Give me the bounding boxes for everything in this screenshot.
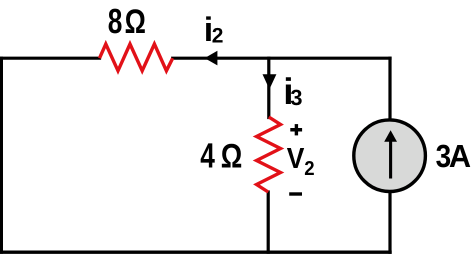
svg-text:2: 2 — [304, 158, 314, 180]
svg-text:8: 8 — [108, 2, 123, 41]
svg-text:V: V — [287, 143, 305, 175]
svg-text:2: 2 — [212, 25, 224, 48]
svg-text:4: 4 — [200, 137, 215, 176]
svg-text:3: 3 — [290, 85, 302, 110]
svg-text:Ω: Ω — [125, 3, 146, 41]
svg-text:A: A — [449, 138, 471, 174]
svg-text:Ω: Ω — [221, 138, 243, 176]
